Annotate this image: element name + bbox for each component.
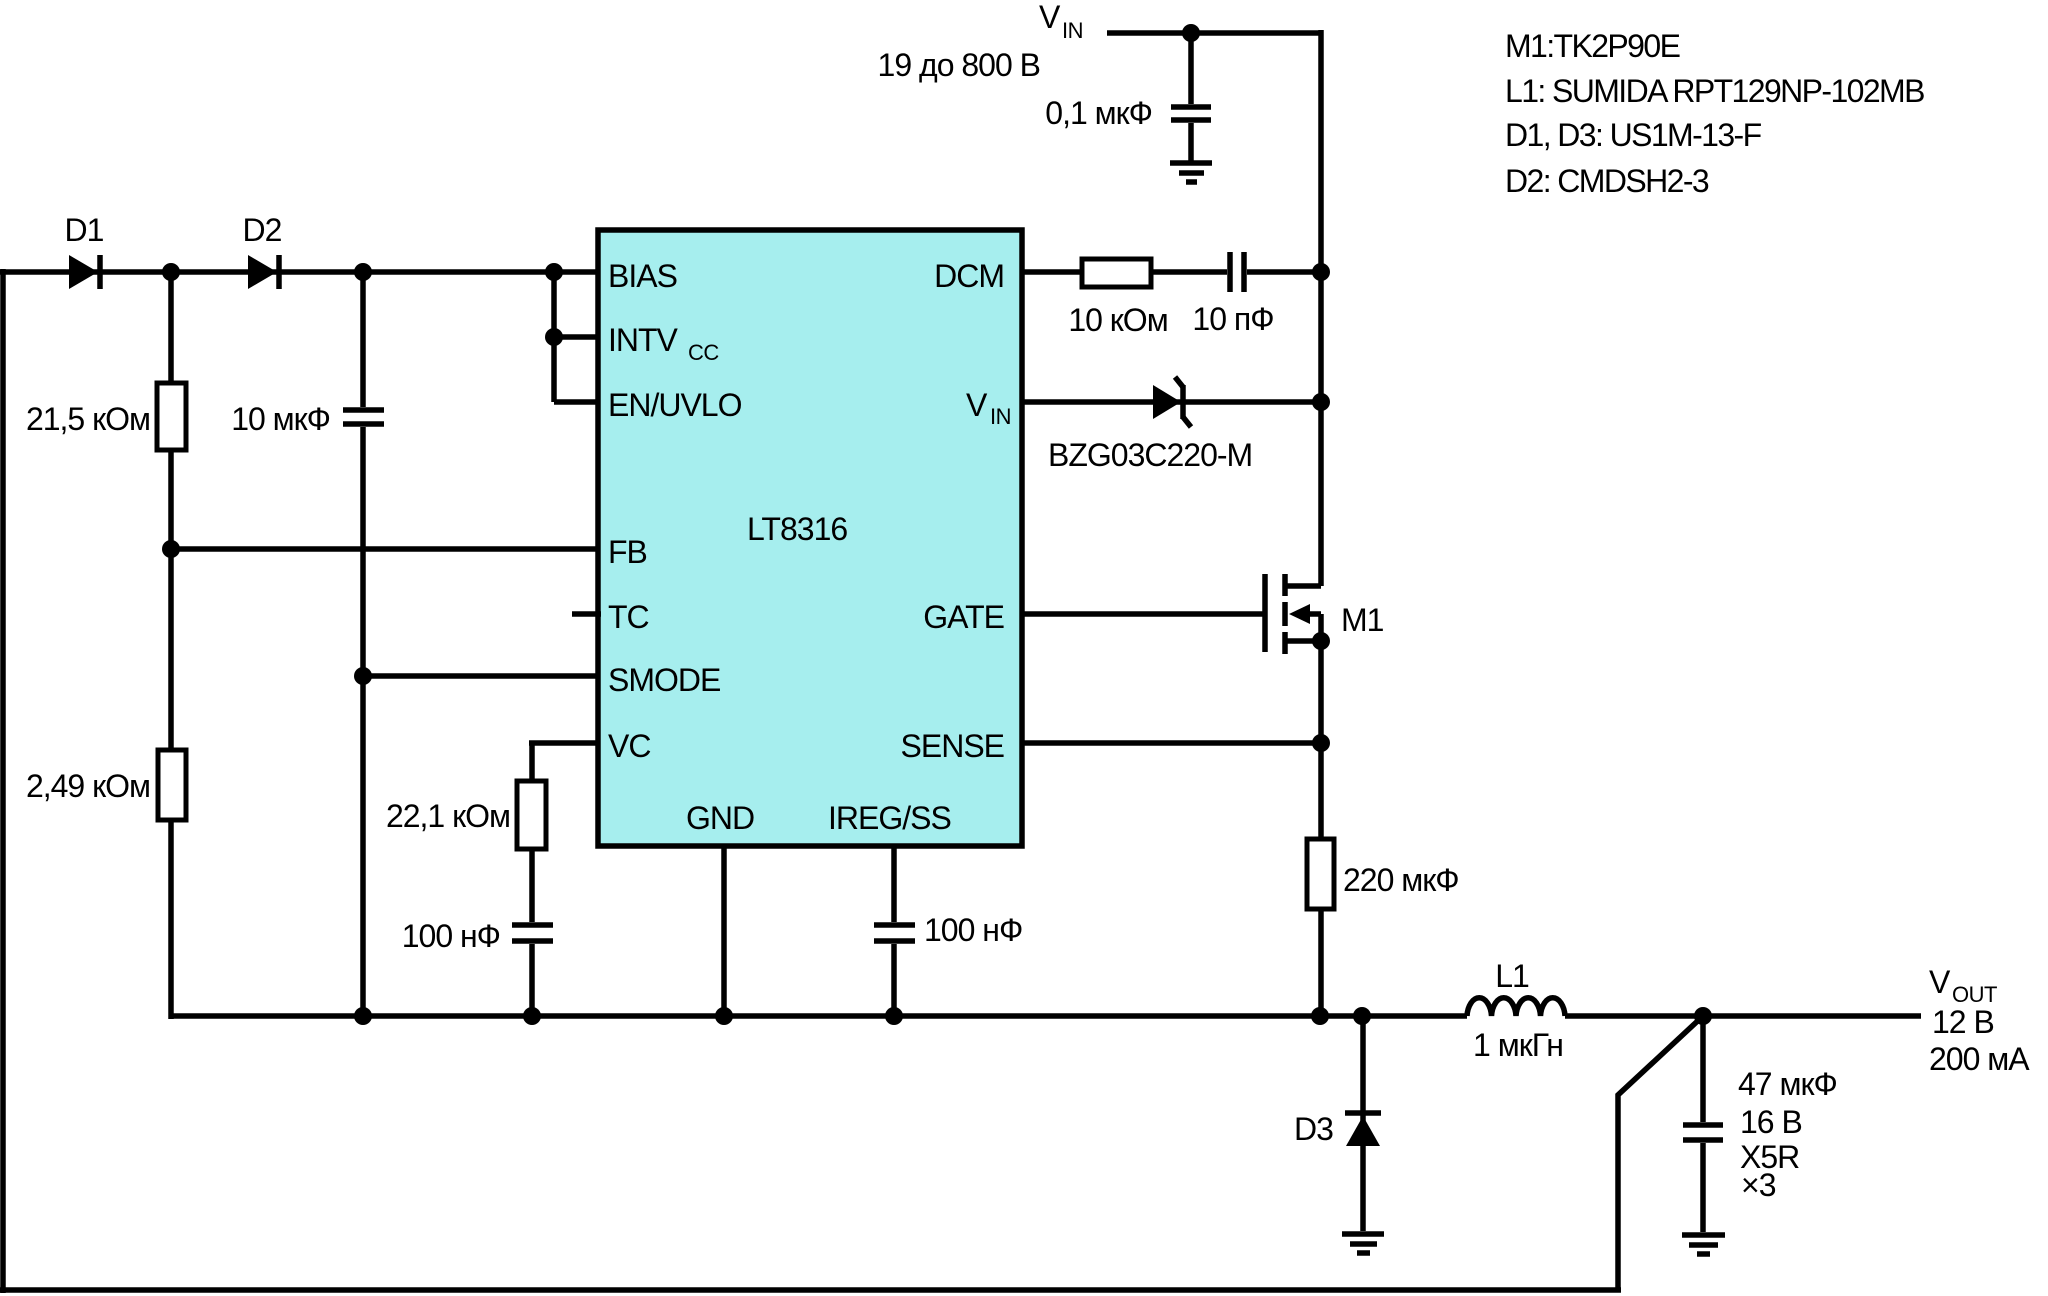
ground D3 xyxy=(1342,1234,1384,1253)
wire output bus right xyxy=(1565,1013,1921,1019)
wire GND pin rail xyxy=(721,846,727,1016)
node INTVCC junction xyxy=(545,328,563,346)
node BIAS intv junction xyxy=(545,263,563,281)
svg-text:TC: TC xyxy=(608,599,649,635)
node M1 source junction xyxy=(1312,632,1330,650)
svg-text:IN: IN xyxy=(1062,18,1083,43)
svg-text:10 кОм: 10 кОм xyxy=(1068,302,1167,338)
svg-text:SMODE: SMODE xyxy=(608,662,720,698)
svg-text:22,1 кОм: 22,1 кОм xyxy=(386,798,510,834)
svg-text:V: V xyxy=(1039,0,1061,35)
wire top VIN rail xyxy=(1107,30,1321,36)
wire VC rail lower xyxy=(529,944,535,1016)
wire right vertical rail from VIN to M1 drain xyxy=(1318,30,1324,586)
svg-text:16 В: 16 В xyxy=(1740,1104,1802,1140)
svg-text:M1:TK2P90E: M1:TK2P90E xyxy=(1505,28,1680,64)
svg-text:220 мкФ: 220 мкФ xyxy=(1343,862,1459,898)
svg-text:L1: SUMIDA RPT129NP-102MB: L1: SUMIDA RPT129NP-102MB xyxy=(1505,73,1924,109)
svg-text:L1: L1 xyxy=(1495,958,1529,994)
wire IREG/SS rail lower xyxy=(891,944,897,1016)
svg-text:GND: GND xyxy=(686,800,754,836)
wire SENSE rail xyxy=(1318,641,1324,1016)
svg-text:SENSE: SENSE xyxy=(901,728,1004,764)
svg-text:LT8316: LT8316 xyxy=(747,511,847,547)
svg-text:VC: VC xyxy=(608,728,650,764)
wire TC stub xyxy=(572,611,601,617)
diode D2 xyxy=(248,255,279,289)
wire EN/UVLO stub xyxy=(554,399,598,405)
diode D1 xyxy=(69,255,100,289)
resistor R3 22,1 кОм xyxy=(517,781,546,849)
wire DCM row right xyxy=(1247,269,1321,275)
svg-text:EN/UVLO: EN/UVLO xyxy=(608,387,742,423)
ground 47мкФ xyxy=(1682,1235,1725,1254)
wire SMODE rail lower xyxy=(360,427,366,1016)
wire VC rail upper xyxy=(529,743,535,922)
svg-text:D2: D2 xyxy=(243,212,282,248)
label VOUT xyxy=(1929,964,1997,1007)
svg-text:19 до 800 В: 19 до 800 В xyxy=(878,47,1040,83)
svg-text:V: V xyxy=(966,387,988,423)
svg-text:0,1 мкФ: 0,1 мкФ xyxy=(1045,95,1152,131)
svg-text:D2: CMDSH2-3: D2: CMDSH2-3 xyxy=(1505,163,1709,199)
svg-text:12 В: 12 В xyxy=(1932,1004,1994,1040)
resistor R1 21,5 кОм xyxy=(157,383,186,450)
pin label VIN (IC) xyxy=(966,387,1011,429)
wire SMODE xyxy=(363,673,598,679)
wire SENSE xyxy=(1022,740,1321,746)
inductor L1 xyxy=(1467,998,1565,1016)
svg-text:DCM: DCM xyxy=(934,258,1004,294)
svg-text:×3: ×3 xyxy=(1741,1167,1776,1203)
node SENSE junction xyxy=(1312,734,1330,752)
ground input cap xyxy=(1170,163,1212,182)
svg-text:21,5 кОм: 21,5 кОм xyxy=(26,401,150,437)
svg-text:IN: IN xyxy=(990,404,1011,429)
wire IREG/SS rail upper xyxy=(891,846,897,922)
node output junction xyxy=(1694,1007,1712,1025)
node SMODE junction xyxy=(354,667,372,685)
svg-text:200 мА: 200 мА xyxy=(1929,1041,2030,1077)
resistor R4 10 кОм xyxy=(1082,259,1151,287)
svg-text:CC: CC xyxy=(688,340,719,365)
svg-text:FB: FB xyxy=(608,534,647,570)
wire VIN pin row xyxy=(1022,399,1321,405)
op-amp U1 IC LT8316 body xyxy=(598,230,1022,846)
svg-text:D3: D3 xyxy=(1294,1111,1333,1147)
wire INTVCC stub xyxy=(554,334,598,340)
svg-text:D1: D1 xyxy=(65,212,104,248)
node bus D3 junction xyxy=(1353,1007,1371,1025)
wire DCM row left xyxy=(1022,269,1227,275)
wire GATE xyxy=(1022,611,1265,617)
wire BIAS to EN/UVLO link xyxy=(551,272,557,402)
svg-text:BIAS: BIAS xyxy=(608,258,677,294)
capacitor C1 10 мкФ xyxy=(343,410,384,424)
wire FB rail vertical xyxy=(168,272,174,1019)
node D1 D2 junction xyxy=(162,263,180,281)
wire D3 rail xyxy=(1360,1016,1366,1231)
wire output return diagonal xyxy=(1618,1016,1703,1290)
capacitor C5 220 мкФ xyxy=(1307,839,1334,909)
node bus gnd junction xyxy=(715,1007,733,1025)
wire left vertical rail xyxy=(0,269,6,1293)
svg-text:GATE: GATE xyxy=(923,599,1004,635)
node bus vc junction xyxy=(523,1007,541,1025)
svg-text:M1: M1 xyxy=(1341,602,1384,638)
capacitor C6 47 мкФ xyxy=(1683,1125,1723,1140)
capacitor C2 100 нФ (VC) xyxy=(512,925,553,941)
svg-text:BZG03C220-M: BZG03C220-M xyxy=(1048,437,1252,473)
transistor M1 MOSFET xyxy=(1265,574,1321,654)
node bus iregss junction xyxy=(885,1007,903,1025)
wire FB xyxy=(171,546,598,552)
node VIN zener junction xyxy=(1312,393,1330,411)
capacitor 0,1 мкФ xyxy=(1171,107,1211,120)
wire BIAS row xyxy=(0,269,598,275)
svg-text:47 мкФ: 47 мкФ xyxy=(1738,1066,1837,1102)
label VIN xyxy=(1039,0,1083,43)
node FB junction xyxy=(162,540,180,558)
node BIAS smode-rail junction xyxy=(354,263,372,281)
wire output bus xyxy=(171,1013,1467,1019)
wire 47мкФ rail lower xyxy=(1700,1143,1706,1232)
svg-text:100 нФ: 100 нФ xyxy=(924,912,1022,948)
parts list text xyxy=(1505,28,1924,199)
svg-text:D1, D3: US1M-13-F: D1, D3: US1M-13-F xyxy=(1505,117,1762,153)
svg-text:2,49 кОм: 2,49 кОм xyxy=(26,768,150,804)
node input cap junction xyxy=(1182,24,1200,42)
svg-text:100 нФ: 100 нФ xyxy=(402,918,500,954)
wire VC xyxy=(529,740,598,746)
wire bottom return xyxy=(0,1287,1621,1293)
wire SMODE rail upper xyxy=(360,272,366,407)
diode D3 xyxy=(1345,1113,1381,1146)
pin label INTVCC xyxy=(608,322,719,365)
node DCM junction xyxy=(1312,263,1330,281)
svg-text:10 мкФ: 10 мкФ xyxy=(231,401,330,437)
svg-text:INTV: INTV xyxy=(608,322,679,358)
capacitor C3 100 нФ (IREG/SS) xyxy=(874,925,915,941)
resistor R2 2,49 кОм xyxy=(158,750,186,820)
svg-text:V: V xyxy=(1929,964,1951,1000)
node bus 220мкФ junction xyxy=(1311,1007,1329,1025)
node bus smode junction xyxy=(354,1007,372,1025)
diode D4 zener BZG03C220-M xyxy=(1153,377,1191,427)
wire input cap top lead xyxy=(1188,33,1194,104)
svg-text:IREG/SS: IREG/SS xyxy=(828,800,951,836)
svg-text:10 пФ: 10 пФ xyxy=(1192,301,1273,337)
svg-text:1 мкГн: 1 мкГн xyxy=(1473,1027,1563,1063)
wire 47мкФ rail upper xyxy=(1700,1016,1706,1122)
capacitor C4 10 пФ xyxy=(1230,252,1244,292)
wire input cap bottom lead xyxy=(1188,123,1194,161)
